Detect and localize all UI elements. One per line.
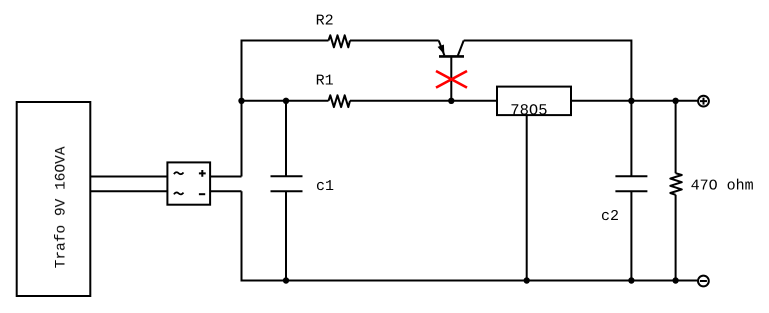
svg-text:47O ohm: 47O ohm (691, 178, 754, 195)
svg-text:c1: c1 (316, 178, 334, 195)
svg-text:c2: c2 (601, 208, 619, 225)
svg-text:78O5: 78O5 (510, 101, 547, 119)
svg-text:R1: R1 (316, 73, 334, 90)
svg-text:Trafo 9V 16OVA: Trafo 9V 16OVA (54, 146, 70, 268)
svg-text:R2: R2 (316, 12, 334, 29)
